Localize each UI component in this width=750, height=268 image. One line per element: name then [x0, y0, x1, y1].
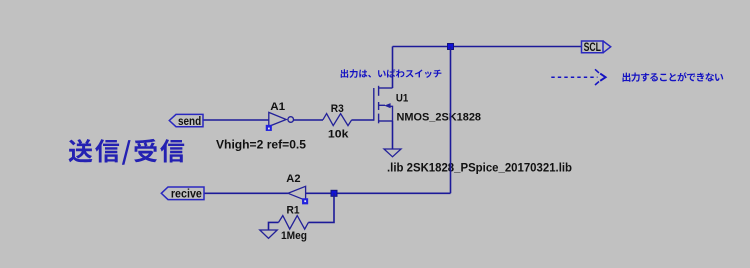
wire A2 input line	[306, 192, 451, 194]
resistor R3	[323, 114, 352, 126]
svg-text:.lib 2SK1828_PSpice_20170321.l: .lib 2SK1828_PSpice_20170321.lib	[387, 162, 572, 174]
net flag SCL	[582, 41, 611, 53]
dashed arrow	[551, 69, 605, 85]
svg-text:U1: U1	[396, 92, 408, 104]
svg-text:10k: 10k	[328, 129, 349, 141]
U1 body arrow	[384, 103, 390, 108]
svg-text:Vhigh=2 ref=0.5: Vhigh=2 ref=0.5	[216, 140, 307, 152]
transistor U1	[374, 86, 393, 124]
comment blue jp1	[341, 69, 442, 78]
inverter A1	[266, 112, 293, 130]
comment blue jp2	[623, 72, 724, 81]
svg-text:A1: A1	[270, 101, 285, 113]
ground at U1 source	[384, 149, 401, 157]
svg-text:send: send	[178, 116, 201, 128]
wire send to A1 input	[203, 119, 269, 121]
comment big 送信/受信	[69, 139, 185, 165]
net flag send	[169, 114, 203, 126]
wire R1 left to ground	[269, 222, 279, 230]
wire top to SCL	[393, 46, 582, 48]
buffer A2	[288, 186, 308, 203]
junction node top	[448, 44, 454, 50]
wire source to ground	[392, 121, 394, 149]
svg-text:A2: A2	[286, 173, 300, 185]
wire R3 to gate	[352, 119, 374, 121]
ground at R1	[260, 230, 277, 238]
wire drain up	[392, 47, 394, 89]
svg-text:NMOS_2SK1828: NMOS_2SK1828	[397, 111, 482, 123]
junction node A2	[331, 190, 337, 196]
wire R1 right to junction	[308, 193, 334, 222]
svg-text:R1: R1	[287, 204, 300, 216]
svg-text:recive: recive	[171, 189, 202, 201]
resistor R1	[279, 216, 309, 230]
svg-text:SCL: SCL	[584, 42, 601, 54]
wire bus vertical	[450, 47, 452, 194]
svg-text:R3: R3	[331, 103, 344, 115]
svg-text:1Meg: 1Meg	[281, 230, 307, 242]
net flag recive	[161, 187, 204, 200]
wire recive to A2	[204, 192, 288, 194]
wire A1 to R3	[294, 119, 324, 121]
